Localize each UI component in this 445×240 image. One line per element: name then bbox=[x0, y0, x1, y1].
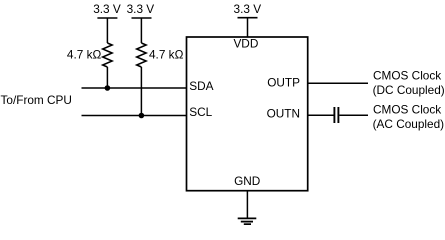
resistor R2 4.7 kOhm (zigzag) bbox=[137, 43, 147, 67]
wire: R2 to SCL line bbox=[140, 67, 142, 116]
wire SDA bus bbox=[82, 87, 187, 89]
svg-text:3.3 V: 3.3 V bbox=[93, 2, 121, 16]
ground symbol bar 1 bbox=[238, 217, 257, 219]
junction dot on SCL bbox=[139, 113, 145, 119]
ground symbol bar 3 bbox=[244, 223, 251, 225]
svg-text:3.3 V: 3.3 V bbox=[234, 2, 262, 16]
svg-text:4.7 kΩ: 4.7 kΩ bbox=[149, 48, 184, 62]
wire GND stem bbox=[246, 191, 248, 219]
wire OUTN to capacitor bbox=[308, 114, 334, 116]
resistor R1 4.7 kOhm (zigzag) bbox=[103, 43, 113, 67]
svg-text:OUTN: OUTN bbox=[267, 106, 300, 120]
svg-text:To/From CPU: To/From CPU bbox=[1, 93, 72, 107]
svg-text:SCL: SCL bbox=[189, 105, 212, 119]
wire: R1 to SDA line bbox=[106, 67, 108, 88]
wire: supply bar to R1 bbox=[106, 18, 108, 43]
svg-text:GND: GND bbox=[234, 174, 260, 188]
wire SCL bus bbox=[82, 115, 187, 117]
svg-text:(AC Coupled): (AC Coupled) bbox=[373, 117, 445, 131]
wire OUTP output bbox=[308, 82, 368, 84]
IC U1 body bbox=[187, 37, 308, 191]
svg-text:CMOS Clock: CMOS Clock bbox=[373, 69, 441, 83]
capacitor C1 left plate bbox=[333, 107, 335, 123]
ground symbol bar 2 bbox=[241, 221, 253, 223]
svg-text:OUTP: OUTP bbox=[267, 75, 300, 89]
svg-text:VDD: VDD bbox=[233, 36, 258, 50]
svg-text:CMOS Clock: CMOS Clock bbox=[373, 102, 441, 116]
svg-text:4.7 kΩ: 4.7 kΩ bbox=[67, 48, 102, 62]
svg-text:(DC Coupled): (DC Coupled) bbox=[373, 83, 445, 97]
junction dot on SDA bbox=[105, 85, 111, 91]
svg-text:SDA: SDA bbox=[189, 79, 213, 93]
wire: VDD supply to IC bbox=[247, 18, 249, 37]
power rail bar (R2 supply) bbox=[132, 17, 152, 19]
power rail bar (VDD supply) bbox=[238, 17, 258, 19]
power rail bar (R1 supply) bbox=[97, 17, 117, 19]
wire capacitor to AC output bbox=[339, 114, 368, 116]
capacitor C1 right plate bbox=[337, 107, 339, 123]
wire: supply bar to R2 bbox=[140, 18, 142, 43]
svg-text:3.3 V: 3.3 V bbox=[127, 2, 155, 16]
